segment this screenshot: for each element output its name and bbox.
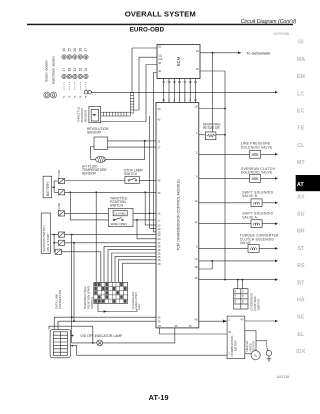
svg-text:*4: *4 bbox=[79, 95, 83, 98]
legend terminal pair bbox=[44, 92, 57, 98]
fuse F6 bbox=[55, 249, 61, 254]
wire ECM pin 46 to sensor bbox=[101, 65, 157, 122]
svg-text:AAT128: AAT128 bbox=[277, 375, 289, 379]
wire TPS lower feed bbox=[70, 192, 108, 220]
wire dropping resistor feed bbox=[212, 53, 214, 132]
svg-text:29: 29 bbox=[195, 105, 198, 109]
svg-text:CONNECTOR: CONNECTOR bbox=[58, 289, 62, 309]
svg-text:39: 39 bbox=[158, 107, 161, 111]
wire cluster pin 20 bbox=[145, 224, 156, 226]
fuse F5 bbox=[58, 240, 64, 245]
header rule bbox=[27, 24, 293, 26]
svg-text:4: 4 bbox=[168, 98, 170, 102]
wire fuse F1 to stop lamp switch bbox=[65, 180, 125, 182]
svg-text:24: 24 bbox=[196, 49, 199, 53]
node PNP feed junction bbox=[95, 191, 97, 193]
OD lamp loop top bbox=[49, 326, 93, 343]
svg-text:OFF: OFF bbox=[235, 288, 237, 293]
svg-text:16: 16 bbox=[158, 212, 161, 216]
wire lamp row bbox=[72, 342, 175, 344]
combination meter box bbox=[227, 316, 245, 359]
fuse F1 bbox=[58, 178, 64, 183]
svg-text:SWITCH: SWITCH bbox=[110, 203, 124, 207]
wire fuse F5 to TCM bbox=[65, 242, 156, 244]
wire TCM pin 25 to meter pin 33 bbox=[160, 328, 227, 334]
dropping resistor element bbox=[207, 134, 216, 137]
svg-text:27: 27 bbox=[84, 48, 88, 52]
svg-text:42: 42 bbox=[158, 117, 161, 121]
O/D off indicator lamp symbol bbox=[97, 340, 103, 346]
stop lamp switch contact bbox=[128, 180, 130, 182]
svg-text:SW: SW bbox=[242, 300, 244, 303]
wire stop lamp switch to TCM bbox=[139, 179, 156, 181]
svg-text:46: 46 bbox=[158, 61, 161, 65]
horizontal hatched resistor bbox=[101, 112, 131, 116]
wire lamp to TCM pin 35 bottom bbox=[174, 328, 176, 343]
svg-text:EURO-OBD: EURO-OBD bbox=[130, 27, 165, 34]
svg-text:BATTERY: BATTERY bbox=[46, 181, 50, 196]
svg-text:Sedan models: Sedan models bbox=[45, 60, 49, 82]
TCM box bbox=[156, 102, 199, 328]
legend column 1 bbox=[62, 48, 88, 72]
svg-text:5: 5 bbox=[196, 245, 198, 249]
svg-text:BT: BT bbox=[297, 280, 305, 286]
svg-text:7: 7 bbox=[179, 98, 181, 102]
ground symbol bbox=[268, 356, 270, 359]
dropping resistor box bbox=[205, 132, 216, 140]
svg-text:110: 110 bbox=[158, 57, 163, 61]
svg-text:6: 6 bbox=[174, 98, 176, 102]
wire shift solenoid B out bbox=[262, 202, 275, 204]
wire fuse vertical to lamp bbox=[71, 235, 73, 343]
closed contact box bbox=[113, 211, 127, 216]
torque converter clutch solenoid label bbox=[240, 234, 279, 245]
wire DLC L-line to TCM pin 35 bbox=[58, 321, 156, 329]
svg-text:24: 24 bbox=[84, 68, 88, 72]
svg-text:RS: RS bbox=[297, 263, 305, 269]
PNP relay lead arrow bbox=[98, 303, 137, 311]
TCM right pin numbers bbox=[195, 105, 198, 322]
wire TCM pin 2 to line pressure solenoid bbox=[199, 153, 250, 155]
svg-text:28: 28 bbox=[79, 48, 83, 52]
wire TCM pin 10 ground run bbox=[199, 260, 276, 262]
legend connector circles row 1 bbox=[62, 55, 88, 59]
svg-text:HA: HA bbox=[297, 298, 305, 304]
svg-text:36: 36 bbox=[158, 245, 161, 249]
svg-text:52: 52 bbox=[158, 45, 161, 49]
svg-text:SENSOR: SENSOR bbox=[84, 109, 88, 123]
data link connector shell bbox=[50, 329, 71, 357]
wire fuse F2 to TCM pin 26 bbox=[65, 191, 156, 193]
throttle position sensor box bbox=[89, 107, 101, 123]
svg-text:SOLENOID VALVE: SOLENOID VALVE bbox=[241, 171, 273, 175]
wire fuse F6 to TCM bbox=[61, 252, 100, 282]
svg-text:11: 11 bbox=[195, 220, 198, 224]
node junction at 212.5,53.7 bbox=[212, 52, 214, 54]
svg-text:MT: MT bbox=[297, 160, 305, 166]
stop lamp switch box bbox=[125, 176, 139, 183]
svg-text:2: 2 bbox=[228, 317, 230, 321]
wire coil to ground circle bbox=[266, 348, 268, 351]
wire revolution sensor left loop bbox=[91, 147, 96, 160]
wire PNP switch feed bbox=[95, 192, 97, 282]
main horizontal wire to right arrow bbox=[91, 91, 276, 93]
svg-text:EM: EM bbox=[297, 74, 306, 80]
shift solenoid B label bbox=[242, 190, 273, 198]
vehicle speed sensor box bbox=[245, 331, 256, 354]
line pressure solenoid label bbox=[241, 142, 273, 150]
overrun clutch solenoid label bbox=[241, 167, 276, 175]
tab AT highlighted bbox=[296, 175, 320, 191]
terminal circles left of main wire bbox=[84, 91, 87, 94]
svg-text:40: 40 bbox=[158, 69, 161, 73]
throttle position switch box bbox=[108, 208, 133, 226]
svg-text:1: 1 bbox=[196, 131, 198, 135]
arrowhead right bus top bbox=[275, 91, 278, 94]
svg-text:46: 46 bbox=[195, 276, 198, 280]
PNP bundle wires to TCM bbox=[104, 246, 156, 282]
svg-text:∿: ∿ bbox=[254, 353, 258, 358]
wire TCC solenoid out bbox=[259, 247, 275, 249]
dropping resistor label bbox=[203, 123, 221, 130]
svg-text:O/D: O/D bbox=[242, 294, 244, 298]
ignition switch label bbox=[42, 226, 50, 252]
svg-text:METER: METER bbox=[234, 340, 238, 351]
wire TCM pin 46 run bbox=[199, 279, 276, 281]
svg-text:*5: *5 bbox=[84, 95, 88, 98]
svg-text:18: 18 bbox=[68, 68, 72, 72]
vertical hatched resistor bbox=[130, 93, 133, 114]
svg-text:48: 48 bbox=[195, 265, 198, 269]
svg-text:SWITCH: SWITCH bbox=[257, 299, 261, 311]
ECM box bbox=[157, 45, 200, 79]
svg-text:AX: AX bbox=[297, 194, 305, 200]
svg-text:40: 40 bbox=[62, 48, 66, 52]
svg-text:23: 23 bbox=[158, 237, 161, 241]
svg-text:ON: ON bbox=[242, 289, 244, 293]
svg-text:SWITCH: SWITCH bbox=[90, 297, 94, 309]
svg-text:SENSOR: SENSOR bbox=[87, 130, 102, 134]
shift solenoid A label bbox=[242, 212, 273, 220]
svg-text:TCM (TRANSMISSION CONTROL MODU: TCM (TRANSMISSION CONTROL MODULE) bbox=[177, 179, 181, 250]
svg-text:20: 20 bbox=[158, 223, 161, 227]
sensor pickup coil bbox=[256, 340, 267, 342]
wire cluster pin 23 bbox=[137, 238, 156, 240]
legend pin marks bbox=[62, 95, 88, 98]
svg-text:FE: FE bbox=[297, 126, 304, 132]
TCM top pin numbers bbox=[162, 98, 197, 102]
svg-text:35: 35 bbox=[175, 324, 178, 328]
potentiometer wiper arrow bbox=[92, 114, 96, 116]
wide open contact bbox=[113, 219, 115, 221]
wire fuse F4 to TCM bbox=[65, 234, 156, 236]
wire fuse F3 to throttle position switch bbox=[65, 212, 109, 214]
svg-text:SW: SW bbox=[235, 300, 237, 303]
wire TCM pin 40 to combination meter bbox=[199, 320, 227, 322]
svg-text:RESISTOR: RESISTOR bbox=[203, 126, 220, 130]
wire meter right out bbox=[245, 320, 276, 322]
TCM bottom pin numbers bbox=[158, 324, 192, 328]
svg-text:111: 111 bbox=[158, 54, 162, 58]
svg-text:27: 27 bbox=[158, 146, 161, 150]
fuse F3 bbox=[58, 211, 64, 216]
wire TCM pin 12 to shift solenoid B bbox=[199, 202, 251, 204]
wires down to OD switch bbox=[237, 280, 239, 289]
shift solenoid B box bbox=[251, 199, 262, 207]
combination meter pin numbers bbox=[228, 317, 244, 355]
svg-text:19: 19 bbox=[73, 68, 77, 72]
svg-text:EL: EL bbox=[297, 332, 305, 338]
speed sensor rotor circle bbox=[251, 351, 260, 360]
svg-text:AT-19: AT-19 bbox=[149, 393, 169, 402]
svg-text:8: 8 bbox=[189, 98, 191, 102]
svg-text:2: 2 bbox=[196, 151, 198, 155]
revolution sensor label bbox=[87, 127, 109, 135]
ECM right pin numbers bbox=[196, 49, 199, 71]
wire shift solenoid A out bbox=[262, 223, 275, 225]
shift solenoid A box bbox=[251, 220, 262, 228]
stop lamp switch label bbox=[124, 169, 144, 177]
fuse F2 bbox=[58, 190, 64, 195]
svg-text:SENSOR: SENSOR bbox=[82, 172, 97, 176]
svg-text:25: 25 bbox=[158, 324, 161, 328]
svg-text:34: 34 bbox=[158, 316, 161, 320]
mid vertical bus A bbox=[144, 192, 146, 225]
PNP switch label bbox=[83, 286, 94, 309]
vehicle speed sensor label bbox=[245, 341, 255, 352]
overdrive control switch grid bbox=[234, 289, 248, 309]
wire TCM pin 29 bbox=[199, 108, 225, 110]
ECM left pin numbers bbox=[158, 45, 163, 74]
svg-text:*2: *2 bbox=[68, 95, 72, 98]
battery box bbox=[43, 176, 52, 198]
wire TCM pin 9 to overrun clutch solenoid bbox=[199, 177, 250, 179]
arrowhead tachometer bbox=[238, 52, 241, 55]
svg-text:33: 33 bbox=[158, 233, 161, 237]
svg-text:O/D OFF INDICATOR LAMP: O/D OFF INDICATOR LAMP bbox=[80, 334, 123, 338]
svg-text:35: 35 bbox=[158, 320, 161, 324]
svg-text:33: 33 bbox=[228, 330, 231, 334]
svg-text:MA: MA bbox=[297, 57, 305, 63]
svg-text:EC: EC bbox=[297, 109, 305, 115]
wire TPS closed to TCM pin 16 bbox=[133, 212, 156, 214]
svg-text:10: 10 bbox=[195, 257, 198, 261]
svg-text:26: 26 bbox=[73, 48, 77, 52]
DLC pin arrows bbox=[71, 336, 74, 346]
svg-text:12: 12 bbox=[195, 199, 198, 203]
svg-text:ECM: ECM bbox=[176, 56, 181, 66]
throttle position switch label bbox=[110, 196, 128, 207]
svg-text:17: 17 bbox=[62, 68, 66, 72]
ECM to TCM harness wires bbox=[163, 79, 165, 103]
svg-text:16: 16 bbox=[189, 324, 192, 328]
svg-text:GI: GI bbox=[298, 40, 304, 46]
svg-text:SU: SU bbox=[297, 212, 305, 218]
wire TCM pin 48 joining bbox=[199, 261, 212, 269]
revolution sensor box bbox=[94, 137, 108, 150]
svg-text:35: 35 bbox=[158, 251, 161, 255]
svg-text:relay: relay bbox=[137, 303, 141, 309]
svg-text:25: 25 bbox=[158, 255, 161, 259]
svg-text:BR: BR bbox=[297, 229, 305, 235]
PNP relay label bbox=[131, 291, 141, 309]
svg-text:*1: *1 bbox=[62, 95, 66, 98]
svg-text:65: 65 bbox=[194, 98, 197, 102]
svg-text:FUSE: FUSE bbox=[57, 170, 61, 178]
svg-text:OVERALL SYSTEM: OVERALL SYSTEM bbox=[125, 10, 196, 19]
svg-text:3: 3 bbox=[184, 98, 186, 102]
svg-text:ON or START: ON or START bbox=[46, 233, 50, 252]
svg-text:9: 9 bbox=[196, 175, 198, 179]
wire cluster pin 19 bbox=[150, 227, 156, 229]
svg-text:18: 18 bbox=[158, 258, 161, 262]
wire temp sensor up bbox=[106, 141, 145, 160]
wire overrun clutch solenoid out bbox=[261, 177, 276, 179]
ignition switch box bbox=[41, 213, 50, 254]
wire revolution sensor pin 2 bbox=[108, 146, 157, 148]
svg-text:17: 17 bbox=[158, 218, 161, 222]
svg-text:CLOSED: CLOSED bbox=[114, 212, 126, 216]
svg-text:SWITCH: SWITCH bbox=[124, 172, 138, 176]
wire ECM pin 52 to vertical bus bbox=[132, 48, 157, 93]
mid vertical bus B bbox=[149, 116, 151, 228]
wire ECM pin 40 long bus bbox=[154, 73, 158, 232]
svg-text:Hatchback models: Hatchback models bbox=[52, 56, 56, 84]
A/T fluid temperature sensor label bbox=[82, 165, 107, 176]
svg-text:To tachometer: To tachometer bbox=[247, 51, 272, 55]
svg-text:40: 40 bbox=[195, 317, 198, 321]
svg-text:FUSE: FUSE bbox=[57, 203, 61, 211]
wire TPS wide open to TCM pin 17 bbox=[133, 219, 156, 221]
wire revolution sensor pin 1 bbox=[108, 140, 157, 142]
wire DLC K-line to TCM pin 34 bbox=[54, 317, 156, 329]
svg-text:AT: AT bbox=[297, 182, 304, 188]
wire DLC to combination meter bbox=[74, 346, 227, 356]
svg-text:25: 25 bbox=[68, 48, 72, 52]
A/T fluid temperature sensor thermistor bbox=[96, 157, 106, 163]
wire TCM pin 11 to shift solenoid A bbox=[199, 223, 251, 225]
svg-text:41: 41 bbox=[162, 98, 165, 102]
svg-text:SOLENOID VALVE: SOLENOID VALVE bbox=[241, 145, 273, 149]
wire TCM pin 5 to TCC solenoid bbox=[199, 247, 248, 249]
line pressure solenoid box bbox=[250, 150, 261, 158]
svg-text:ST: ST bbox=[297, 246, 305, 252]
overdrive control switch label bbox=[250, 293, 261, 311]
svg-text:WIDE OPEN: WIDE OPEN bbox=[111, 222, 127, 226]
fuse F4 bbox=[58, 232, 64, 237]
throttle position sensor label bbox=[77, 107, 88, 123]
node temp sensor junction bbox=[144, 140, 146, 142]
svg-text:IDX: IDX bbox=[296, 349, 305, 355]
svg-text:45: 45 bbox=[158, 179, 161, 183]
svg-text:SC: SC bbox=[297, 315, 305, 321]
legend dashed leads bbox=[64, 82, 86, 91]
svg-text:O/D: O/D bbox=[235, 294, 237, 298]
svg-text:31: 31 bbox=[158, 139, 161, 143]
combination meter label bbox=[230, 336, 238, 357]
legend connector circles row 2 bbox=[62, 74, 88, 78]
ground terminal circle bbox=[266, 351, 272, 357]
overrun clutch solenoid box bbox=[250, 175, 261, 183]
wire ECM to tachometer bbox=[200, 52, 241, 54]
svg-text:20: 20 bbox=[79, 68, 83, 72]
svg-text:47: 47 bbox=[158, 241, 161, 245]
svg-text:SAT090BB: SAT090BB bbox=[273, 32, 289, 36]
data link connector label bbox=[54, 289, 62, 309]
wire ECM right pin 60 down right bus bbox=[200, 71, 225, 280]
wire ECM pin 110/111 to vertical bus bbox=[134, 57, 157, 110]
wire line pressure solenoid out bbox=[261, 153, 276, 155]
wire battery to fuses bbox=[52, 186, 54, 188]
svg-text:VALVE B: VALVE B bbox=[242, 194, 258, 198]
PNP switch contact grid bbox=[94, 282, 128, 303]
svg-text:LC: LC bbox=[297, 91, 304, 97]
wire ignition to fuse F4 bbox=[51, 234, 59, 236]
svg-text:34: 34 bbox=[158, 248, 161, 252]
svg-text:40: 40 bbox=[241, 317, 244, 321]
TCM left pin numbers bbox=[158, 107, 161, 324]
svg-text:VALVE A: VALVE A bbox=[242, 215, 257, 219]
wire TCM pin 1 to dropping resistor bbox=[199, 134, 206, 136]
svg-text:CL: CL bbox=[297, 143, 305, 149]
svg-text:19: 19 bbox=[158, 227, 161, 231]
svg-text:60: 60 bbox=[196, 67, 199, 71]
svg-text:28: 28 bbox=[158, 262, 161, 266]
svg-text:26: 26 bbox=[158, 191, 161, 195]
svg-text:*3: *3 bbox=[73, 95, 77, 98]
torque converter clutch solenoid box bbox=[248, 245, 259, 253]
wire cluster pin 15 bbox=[154, 231, 157, 233]
ECM bottom pin numbers bbox=[162, 80, 197, 84]
